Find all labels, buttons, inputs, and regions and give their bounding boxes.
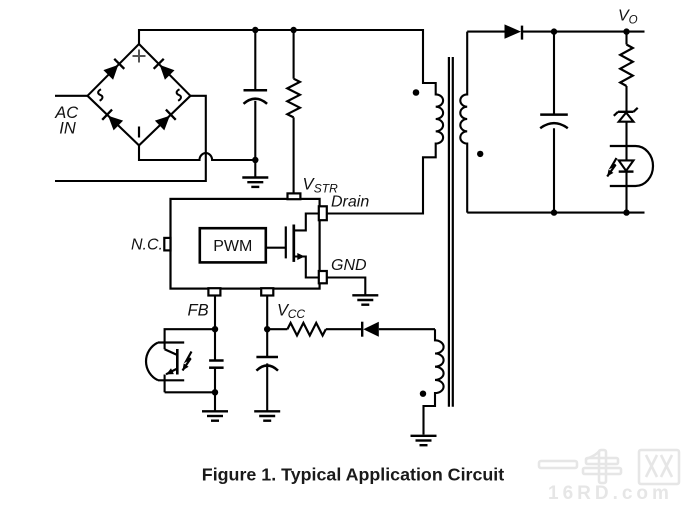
svg-text:CC: CC	[288, 307, 306, 321]
svg-text:O: O	[629, 15, 638, 27]
svg-text:GND: GND	[331, 257, 367, 274]
svg-text:N.C.: N.C.	[131, 237, 163, 254]
svg-text:PWM: PWM	[213, 238, 252, 255]
svg-text:16RD.com: 16RD.com	[548, 483, 673, 504]
svg-text:Drain: Drain	[331, 194, 369, 211]
svg-text:Figure 1. Typical Application: Figure 1. Typical Application Circuit	[202, 464, 504, 484]
svg-text:IN: IN	[59, 120, 76, 138]
svg-text:FB: FB	[188, 302, 209, 320]
